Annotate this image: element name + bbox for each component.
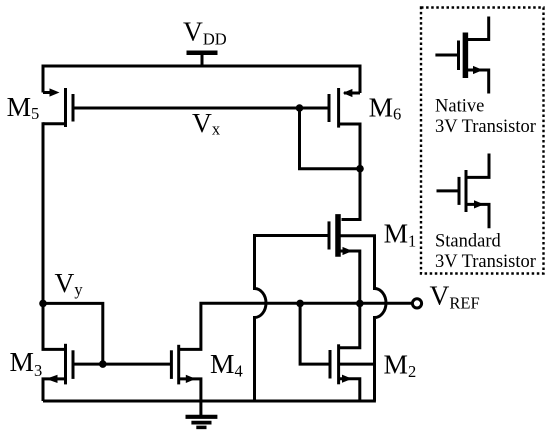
svg-text:VREF: VREF [430,280,480,313]
svg-text:Vx: Vx [192,107,221,139]
svg-text:M5: M5 [7,91,40,123]
svg-text:3V Transistor: 3V Transistor [435,252,536,272]
svg-text:M1: M1 [384,218,417,251]
svg-text:3V Transistor: 3V Transistor [435,117,536,137]
svg-text:M3: M3 [10,346,43,380]
svg-text:M2: M2 [384,349,417,382]
svg-text:M4: M4 [210,348,243,380]
svg-text:VDD: VDD [183,15,227,48]
svg-text:Standard: Standard [435,231,502,251]
svg-text:M6: M6 [369,92,402,124]
svg-text:Native: Native [435,96,484,116]
svg-text:Vy: Vy [55,267,84,299]
